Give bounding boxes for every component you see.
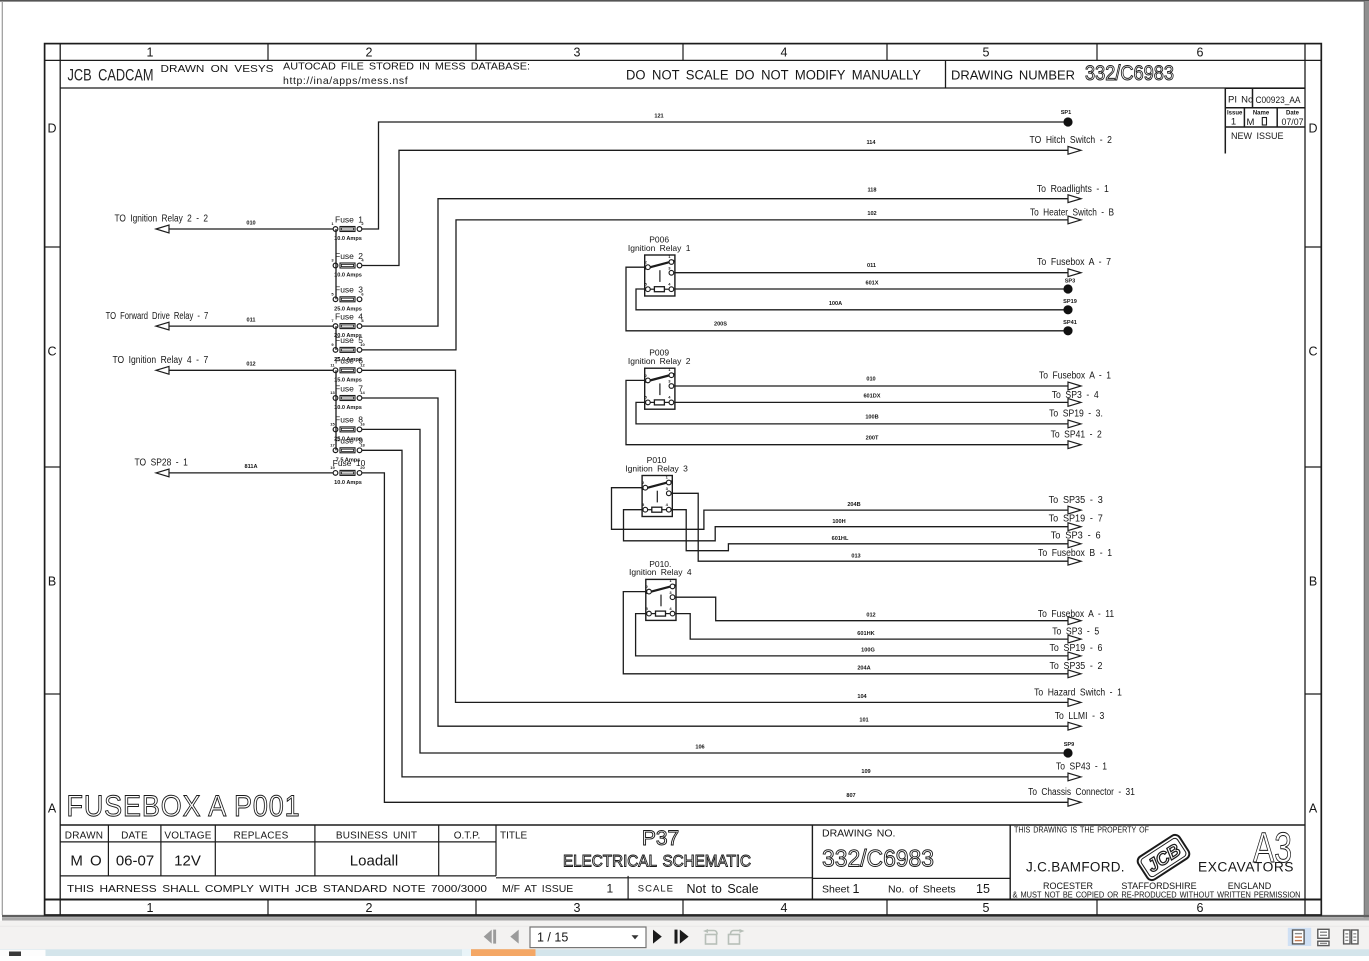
svg-text:To SP35 - 2: To SP35 - 2 xyxy=(1050,661,1103,672)
viewer top edge line xyxy=(0,0,1369,2)
splice SP1 xyxy=(1061,110,1073,127)
svg-text:Loadall: Loadall xyxy=(350,853,398,870)
svg-text:Name: Name xyxy=(1253,111,1270,117)
svg-text:10: 10 xyxy=(360,342,365,347)
svg-text:10.0 Amps: 10.0 Amps xyxy=(334,405,362,411)
svg-text:204A: 204A xyxy=(857,665,870,671)
svg-text:To LLMI - 3: To LLMI - 3 xyxy=(1055,711,1105,722)
splice SP19 xyxy=(1063,299,1077,314)
svg-text:101: 101 xyxy=(859,717,868,723)
wire 102 to heater switch xyxy=(362,208,1114,350)
svg-text:To SP19 - 3.: To SP19 - 3. xyxy=(1049,409,1103,420)
svg-text:1: 1 xyxy=(1231,117,1236,128)
autocad file note xyxy=(283,61,530,88)
svg-text:Fuse 2: Fuse 2 xyxy=(335,251,363,261)
wire 100B to SP19-3 xyxy=(636,402,1103,427)
nav first-page button xyxy=(484,930,496,944)
fuse F5 (Fuse 5 25.0 Amps) xyxy=(331,335,365,363)
svg-text:TO Ignition Relay 2 - 2: TO Ignition Relay 2 - 2 xyxy=(115,214,209,225)
fuse F6 (Fuse 6 15.0 Amps) xyxy=(330,356,365,384)
title text P37 electrical schematic xyxy=(563,827,751,871)
grid row dividers left xyxy=(45,247,61,694)
svg-text:To Fusebox A - 1: To Fusebox A - 1 xyxy=(1039,371,1111,382)
svg-text:A: A xyxy=(48,802,57,816)
svg-text:Fuse 7: Fuse 7 xyxy=(335,383,363,393)
svg-text:5: 5 xyxy=(983,901,990,915)
svg-text:DRAWN: DRAWN xyxy=(65,830,103,841)
svg-text:To SP3 - 4: To SP3 - 4 xyxy=(1052,390,1099,401)
svg-text:1: 1 xyxy=(147,901,154,915)
svg-text:M: M xyxy=(1247,117,1255,128)
grid row dividers right xyxy=(1305,247,1321,694)
wire 601X to splice SP3 xyxy=(674,280,1063,289)
drawing no cell xyxy=(822,827,934,872)
svg-text:TO SP28 - 1: TO SP28 - 1 xyxy=(135,458,189,469)
svg-text:DRAWING NUMBER: DRAWING NUMBER xyxy=(951,69,1075,83)
title block outline xyxy=(60,825,1305,900)
wire 204B to SP35-3 xyxy=(612,488,1104,530)
wire 601HK to SP3-5 xyxy=(675,614,1099,643)
svg-text:10.0 Amps: 10.0 Amps xyxy=(334,273,362,279)
fuse F10 (Fuse 10 10.0 Amps) xyxy=(330,458,365,486)
fuse chain F4-F5 xyxy=(335,326,337,350)
svg-text:114: 114 xyxy=(866,140,876,146)
viewer left edge line xyxy=(1,1,3,915)
svg-text:332/C6983: 332/C6983 xyxy=(822,846,934,873)
svg-text:To SP3 - 6: To SP3 - 6 xyxy=(1051,531,1101,542)
svg-text:To SP41 - 2: To SP41 - 2 xyxy=(1051,430,1102,441)
svg-text:011: 011 xyxy=(867,263,876,269)
svg-text:To Chassis Connector - 31: To Chassis Connector - 31 xyxy=(1028,787,1135,798)
fuse F1 (Fuse 1 10.0 Amps) xyxy=(331,214,364,242)
svg-text:VOLTAGE: VOLTAGE xyxy=(164,830,211,841)
svg-text:SP3: SP3 xyxy=(1065,279,1076,285)
svg-text:18: 18 xyxy=(360,442,365,447)
svg-text:SP19: SP19 xyxy=(1063,299,1077,305)
svg-text:12V: 12V xyxy=(174,853,201,870)
title block headers xyxy=(65,830,528,841)
svg-text:121: 121 xyxy=(654,114,663,120)
svg-text:DRAWN ON VESYS: DRAWN ON VESYS xyxy=(161,64,274,75)
svg-text:C: C xyxy=(47,345,56,359)
fuse F2 (Fuse 2 10.0 Amps) xyxy=(331,251,364,279)
next-view button (disabled) xyxy=(729,929,745,944)
M/F at issue xyxy=(502,882,614,896)
grid letters right xyxy=(1308,122,1317,816)
svg-text:No. of Sheets: No. of Sheets xyxy=(888,883,956,895)
svg-text:FUSEBOX A P001: FUSEBOX A P001 xyxy=(67,790,301,823)
svg-text:NEW ISSUE: NEW ISSUE xyxy=(1231,131,1284,141)
svg-text:Sheet: Sheet xyxy=(822,883,850,895)
grid letters left xyxy=(47,122,56,816)
svg-text:AUTOCAD FILE STORED IN MESS DA: AUTOCAD FILE STORED IN MESS DATABASE: xyxy=(283,61,530,73)
svg-text:19: 19 xyxy=(330,465,335,470)
svg-text:011: 011 xyxy=(246,318,255,324)
wire 100G to SP19-6 xyxy=(636,614,1103,660)
splice SP9 xyxy=(1063,742,1074,757)
svg-text:14: 14 xyxy=(360,390,365,395)
fuse chain F1-F3 xyxy=(335,229,337,299)
drawing number label xyxy=(951,62,1174,85)
svg-text:601HK: 601HK xyxy=(857,631,874,637)
wire 011 to fusebox A-7 xyxy=(674,257,1111,276)
svg-text:601X: 601X xyxy=(865,280,878,286)
svg-text:M/F AT ISSUE: M/F AT ISSUE xyxy=(502,883,573,895)
address line xyxy=(1043,881,1272,891)
sheet numbers xyxy=(822,882,990,896)
svg-text:4: 4 xyxy=(781,901,788,915)
svg-text:C00923_AA: C00923_AA xyxy=(1256,95,1302,105)
wire 010 to "TO Ignition Relay 2 - 2" xyxy=(115,214,333,233)
svg-text:& MUST NOT BE COPIED OR RE-PRO: & MUST NOT BE COPIED OR RE-PRODUCED WITH… xyxy=(1013,890,1301,899)
fuse F8 (Fuse 8 25.0 Amps) xyxy=(330,415,365,443)
grid numbers top xyxy=(147,46,1204,60)
svg-text:1: 1 xyxy=(147,46,154,60)
wire 100A to splice SP19 xyxy=(636,289,1064,310)
svg-text:5: 5 xyxy=(983,46,990,60)
svg-text:To SP43 - 1: To SP43 - 1 xyxy=(1056,762,1107,773)
svg-text:To Fusebox A - 7: To Fusebox A - 7 xyxy=(1037,257,1111,268)
relay P010 Ignition Relay 3 xyxy=(625,455,688,517)
wire 200S to splice SP41 xyxy=(626,267,1064,331)
svg-text:SP9: SP9 xyxy=(1064,742,1075,748)
svg-text:013: 013 xyxy=(851,554,860,560)
svg-text:SP1: SP1 xyxy=(1061,110,1072,116)
svg-text:To SP35 - 3: To SP35 - 3 xyxy=(1049,495,1104,506)
svg-text:To Hazard Switch - 1: To Hazard Switch - 1 xyxy=(1034,688,1122,699)
view mode: facing pages xyxy=(1344,930,1358,944)
svg-text:200T: 200T xyxy=(866,436,879,442)
pdf toolbar background xyxy=(0,921,1369,950)
svg-text:Fuse 1: Fuse 1 xyxy=(335,214,363,224)
svg-text:807: 807 xyxy=(846,793,855,799)
svg-text:2: 2 xyxy=(366,46,373,60)
wire 601HL to SP3-6 xyxy=(671,510,1101,551)
svg-text:601DX: 601DX xyxy=(863,394,880,400)
svg-text:P37: P37 xyxy=(642,827,679,850)
previous-view button (disabled) xyxy=(703,929,717,944)
svg-text:012: 012 xyxy=(246,362,255,368)
svg-text:D: D xyxy=(47,122,56,136)
svg-text:D: D xyxy=(1308,122,1317,136)
svg-text:REPLACES: REPLACES xyxy=(234,830,289,841)
wire 200T to SP41-2 xyxy=(626,380,1102,448)
svg-text:O.T.P.: O.T.P. xyxy=(454,830,481,841)
svg-text:100A: 100A xyxy=(829,301,842,307)
svg-text:07/07: 07/07 xyxy=(1281,117,1303,127)
scale cell xyxy=(638,882,759,896)
svg-text:012: 012 xyxy=(866,613,875,619)
svg-text:2: 2 xyxy=(366,901,373,915)
svg-text:BUSINESS UNIT: BUSINESS UNIT xyxy=(336,830,417,841)
nav previous-page button xyxy=(510,930,518,944)
svg-text:15: 15 xyxy=(330,421,335,426)
svg-text:200S: 200S xyxy=(714,321,727,327)
svg-text:THIS HARNESS SHALL COMPLY WITH: THIS HARNESS SHALL COMPLY WITH JCB STAND… xyxy=(67,883,487,895)
svg-text:SCALE: SCALE xyxy=(638,884,674,895)
wire 010 to fusebox A-1 xyxy=(674,371,1111,390)
splice SP41 xyxy=(1063,320,1077,335)
bottom blue strip xyxy=(0,949,1369,956)
svg-text:13: 13 xyxy=(330,390,335,395)
svg-text:06-07: 06-07 xyxy=(116,853,154,870)
svg-text:106: 106 xyxy=(695,744,704,750)
page number box xyxy=(530,927,646,948)
grid numbers bottom xyxy=(147,901,1204,915)
svg-text:To SP19 - 7: To SP19 - 7 xyxy=(1049,514,1104,525)
svg-text:DATE: DATE xyxy=(121,830,148,841)
svg-text:Fuse 5: Fuse 5 xyxy=(335,335,363,345)
svg-text:100H: 100H xyxy=(832,519,845,525)
wire 811A to "TO SP28 - 1" xyxy=(135,458,333,477)
svg-text:Fuse 6: Fuse 6 xyxy=(335,356,363,366)
wire 011 to "TO Forward Drive Relay - 7" xyxy=(106,311,333,330)
issue row xyxy=(1227,111,1304,129)
svg-text:C: C xyxy=(1308,345,1317,359)
svg-text:10.0 Amps: 10.0 Amps xyxy=(334,480,362,486)
svg-text:1: 1 xyxy=(607,882,614,896)
svg-text:To SP19 - 6: To SP19 - 6 xyxy=(1050,643,1103,654)
wire 106 to splice SP9 xyxy=(362,429,1063,753)
svg-text:12: 12 xyxy=(360,362,365,367)
svg-text:100G: 100G xyxy=(861,647,875,653)
wire 807 to chassis connector xyxy=(362,473,1135,806)
svg-text:To Fusebox A - 11: To Fusebox A - 11 xyxy=(1038,609,1115,620)
svg-text:A: A xyxy=(1309,802,1318,816)
svg-text:ELECTRICAL SCHEMATIC: ELECTRICAL SCHEMATIC xyxy=(563,853,751,871)
title block values xyxy=(70,853,398,870)
svg-text:Ignition Relay 4: Ignition Relay 4 xyxy=(629,567,692,577)
svg-text:20: 20 xyxy=(360,465,365,470)
svg-text:To SP3 - 5: To SP3 - 5 xyxy=(1052,626,1099,637)
splice SP3 xyxy=(1063,279,1075,294)
svg-text:601HL: 601HL xyxy=(832,536,849,542)
page bottom shadow xyxy=(2,916,1369,921)
relay P006 Ignition Relay 1 xyxy=(628,235,691,297)
svg-text:Ignition Relay 2: Ignition Relay 2 xyxy=(628,356,691,366)
relay P010. Ignition Relay 4 xyxy=(629,559,692,621)
svg-text:TO Ignition Relay 4 - 7: TO Ignition Relay 4 - 7 xyxy=(113,355,209,366)
svg-text:A3: A3 xyxy=(1253,824,1292,872)
svg-text:J.C.BAMFORD.: J.C.BAMFORD. xyxy=(1026,860,1125,875)
svg-text:Not to Scale: Not to Scale xyxy=(687,882,759,896)
svg-text:TITLE: TITLE xyxy=(500,830,528,841)
wire 104 to hazard switch xyxy=(362,370,1122,706)
JCB logo xyxy=(1136,833,1192,882)
wire 601DX to SP3-4 xyxy=(674,390,1099,406)
PI number table xyxy=(1225,88,1305,153)
view mode: continuous xyxy=(1318,929,1329,945)
svg-text:104: 104 xyxy=(857,694,867,700)
relay P009 Ignition Relay 2 xyxy=(628,348,691,410)
svg-text:010: 010 xyxy=(866,377,875,383)
svg-text:332/C6983: 332/C6983 xyxy=(1085,62,1174,85)
wire 012 to "TO Ignition Relay 4 - 7" xyxy=(113,355,333,374)
wire 118 to roadlights xyxy=(362,184,1109,326)
svg-text:THIS DRAWING IS THE PROPERTY O: THIS DRAWING IS THE PROPERTY OF xyxy=(1014,826,1149,835)
svg-text:B: B xyxy=(1309,575,1317,589)
fuse F7 (Fuse 7 10.0 Amps) xyxy=(330,383,365,411)
svg-text:Fuse 8: Fuse 8 xyxy=(335,415,363,425)
svg-text:DO NOT SCALE DO NOT MODIFY MAN: DO NOT SCALE DO NOT MODIFY MANUALLY xyxy=(626,68,921,83)
svg-text:TO Forward Drive Relay - 7: TO Forward Drive Relay - 7 xyxy=(106,311,209,322)
svg-text:118: 118 xyxy=(867,187,876,193)
fuse chain F6-F9 xyxy=(335,370,337,450)
wire 204A to SP35-2 xyxy=(623,592,1103,678)
nav last-page button xyxy=(675,930,689,944)
wire 114 to hitch switch xyxy=(362,135,1112,266)
svg-text:010: 010 xyxy=(246,221,255,227)
svg-text:15: 15 xyxy=(976,882,990,896)
svg-text:6: 6 xyxy=(1197,46,1204,60)
svg-text:3: 3 xyxy=(574,901,581,915)
svg-text:17: 17 xyxy=(330,442,335,447)
svg-text:Date: Date xyxy=(1286,111,1300,117)
grid column dividers bottom xyxy=(268,900,1097,916)
svg-text:Ignition Relay 3: Ignition Relay 3 xyxy=(625,463,688,473)
wire 109 to SP43 xyxy=(362,450,1107,781)
svg-text:Fuse 3: Fuse 3 xyxy=(335,285,363,295)
svg-text:M O: M O xyxy=(70,853,101,870)
view mode: single page (selected) xyxy=(1288,928,1311,946)
svg-text:204B: 204B xyxy=(847,502,860,508)
wire 101 to LLMI xyxy=(362,398,1105,730)
svg-text:Fuse 9: Fuse 9 xyxy=(335,436,363,446)
svg-text:PI No: PI No xyxy=(1228,95,1253,106)
scrollbar strip right xyxy=(1364,1,1369,920)
svg-text:4: 4 xyxy=(781,46,788,60)
PI No cell text xyxy=(1228,95,1301,106)
svg-text:1: 1 xyxy=(853,882,860,896)
wire 121 from F1 to splice SP1 xyxy=(362,114,1063,229)
wire 012 to fusebox A-11 xyxy=(675,597,1114,624)
grid column dividers top xyxy=(268,44,1097,61)
fuse F3 (Fuse 3 25.0 Amps) xyxy=(331,285,364,313)
svg-text:Fuse 4: Fuse 4 xyxy=(335,311,363,321)
svg-text:6: 6 xyxy=(1197,901,1204,915)
svg-text:B: B xyxy=(48,575,56,589)
svg-text:To Fusebox B - 1: To Fusebox B - 1 xyxy=(1038,548,1112,559)
top title strip xyxy=(60,60,1305,88)
svg-text:http://ina/apps/mess.nsf: http://ina/apps/mess.nsf xyxy=(283,75,408,87)
nav next-page button xyxy=(653,930,662,944)
svg-text:Ignition Relay 1: Ignition Relay 1 xyxy=(628,243,691,253)
svg-text:SP41: SP41 xyxy=(1063,320,1077,326)
svg-text:TO Hitch Switch - 2: TO Hitch Switch - 2 xyxy=(1030,135,1113,146)
wire 100H to SP19-7 xyxy=(624,510,1104,541)
fuse F4 (Fuse 4 20.0 Amps) xyxy=(331,311,364,339)
svg-text:To Roadlights - 1: To Roadlights - 1 xyxy=(1037,184,1109,195)
svg-text:811A: 811A xyxy=(244,464,257,470)
wire 013 to fusebox B-1 xyxy=(671,493,1112,565)
svg-text:3: 3 xyxy=(574,46,581,60)
svg-text:DRAWING NO.: DRAWING NO. xyxy=(822,827,895,839)
svg-text:1 / 15: 1 / 15 xyxy=(537,931,568,945)
fuse F9 (Fuse 9 7.5 Amps) xyxy=(330,436,365,464)
svg-text:102: 102 xyxy=(867,211,876,217)
svg-text:To Heater Switch - B: To Heater Switch - B xyxy=(1030,208,1114,219)
svg-text:16: 16 xyxy=(360,421,365,426)
svg-text:100B: 100B xyxy=(865,415,878,421)
svg-text:109: 109 xyxy=(861,769,870,775)
svg-text:JCB CADCAM: JCB CADCAM xyxy=(68,66,154,85)
svg-text:10.0 Amps: 10.0 Amps xyxy=(334,236,362,242)
